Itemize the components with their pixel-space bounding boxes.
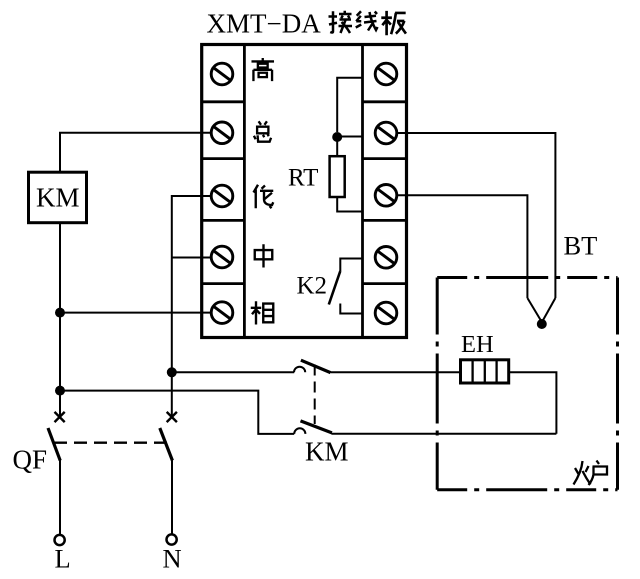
svg-text:EH: EH: [461, 331, 494, 358]
terminal screw R1: [375, 63, 397, 85]
svg-text:BT: BT: [564, 230, 598, 260]
svg-text:QF: QF: [13, 445, 48, 475]
right terminal column inner edge: [361, 45, 364, 338]
KM contact linkage dashes: [314, 365, 316, 425]
resistor RT: [330, 156, 345, 197]
breaker QF pole 2 cross: [167, 412, 177, 422]
breaker QF pole 2 blade: [160, 428, 173, 461]
wire QF pole1 to L: [59, 460, 61, 535]
KM contact lower blade: [301, 421, 332, 433]
switch K2 bottom stub: [340, 304, 362, 314]
breaker QF pole 1 blade: [48, 428, 60, 461]
label char 相: [251, 301, 274, 324]
furnace dash-dot box top edge: [437, 276, 617, 279]
wire EH right loop: [509, 372, 557, 434]
furnace dash-dot box left edge: [436, 278, 439, 490]
label char 总: [254, 121, 271, 141]
wire terminal L2 to KM coil: [60, 133, 212, 172]
right column row separators: [363, 102, 407, 284]
title char 线: [356, 11, 378, 30]
wire KM upper contact to EH: [331, 371, 461, 373]
title char 板: [381, 11, 406, 35]
thermocouple BT taper right: [542, 298, 555, 322]
terminal screw L5: [211, 302, 233, 324]
terminal screw R2: [375, 122, 397, 144]
terminal screw R3: [375, 185, 397, 207]
svg-text:N: N: [163, 544, 182, 574]
breaker QF pole 1 cross: [55, 412, 65, 422]
switch K2 blade: [329, 271, 341, 305]
svg-text:K2: K2: [297, 273, 328, 300]
heater EH dividers: [473, 360, 497, 383]
wire terminal L5 to junction: [60, 312, 212, 314]
label char 中: [255, 244, 273, 267]
wire from terminal R1 to node: [337, 78, 362, 132]
svg-text:L: L: [55, 544, 71, 574]
wire terminal L3 down: [172, 196, 212, 417]
KM contact upper blade: [301, 360, 331, 372]
wire junction to KM contact lower: [60, 391, 294, 434]
terminal screw R4: [375, 246, 397, 268]
wire terminal R2 to BT: [397, 133, 556, 298]
left terminal column inner edge: [243, 45, 246, 338]
terminal circle L: [55, 535, 65, 545]
furnace dash-dot box right edge: [616, 278, 619, 490]
label char 低: [254, 185, 274, 209]
terminal screw R5: [375, 302, 397, 324]
svg-text:KM: KM: [305, 436, 349, 466]
KM contact lower fixed arc: [294, 428, 305, 434]
wire branch to terminal L4: [172, 257, 212, 259]
label char 炉: [574, 461, 608, 486]
terminal board outer rectangle: [202, 45, 407, 338]
svg-text:XMT−DA: XMT−DA: [207, 9, 322, 39]
terminal screw L4: [211, 246, 233, 268]
wire RT bottom to terminal R3: [337, 197, 362, 212]
breaker QF linkage dashes: [54, 442, 169, 444]
furnace dash-dot box bottom edge: [437, 488, 617, 491]
junction dot L-phase: [55, 386, 65, 396]
title char 接: [329, 11, 353, 33]
terminal screw L1: [211, 63, 233, 85]
contactor coil KM: [29, 172, 87, 223]
KM contact upper fixed arc: [294, 367, 305, 373]
wire junction to KM contact upper: [172, 371, 294, 373]
svg-text:KM: KM: [36, 182, 80, 212]
junction dot L5/KM: [55, 308, 65, 318]
wire KM coil down: [59, 223, 61, 417]
junction dot N-phase top: [167, 367, 177, 377]
thermocouple BT taper left: [527, 298, 541, 322]
terminal screw L2: [211, 122, 233, 144]
label char 高: [251, 58, 274, 81]
node junction dot at RT top: [332, 132, 342, 142]
wire QF pole2 to N: [171, 460, 173, 534]
switch K2 top stub: [340, 259, 362, 272]
wire terminal R3 to BT: [397, 195, 528, 298]
heater EH box: [461, 360, 509, 383]
wire node to terminal R2: [337, 136, 362, 138]
wire node to RT top: [336, 140, 338, 156]
terminal screw L3: [211, 185, 233, 207]
svg-text:RT: RT: [288, 165, 318, 192]
thermocouple BT junction dot: [537, 319, 547, 329]
terminal circle N: [167, 534, 177, 544]
left column row separators: [202, 102, 245, 284]
wire KM lower contact to loop: [332, 433, 557, 435]
